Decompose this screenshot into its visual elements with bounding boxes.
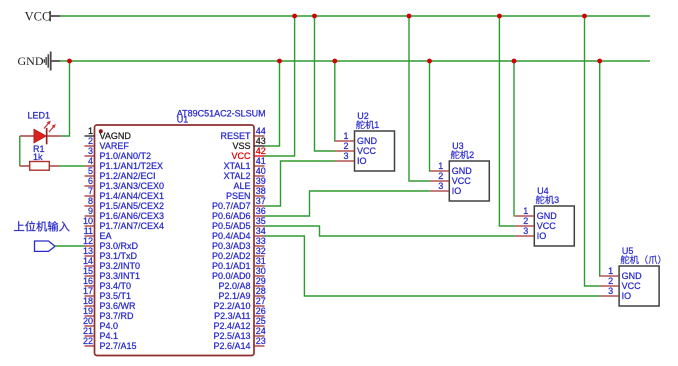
svg-text:P2.0/A8: P2.0/A8 <box>218 281 250 291</box>
svg-text:GND: GND <box>18 54 44 68</box>
U1 pin 13 P3.1/TxD <box>83 246 138 261</box>
wire VCC rail to U5 pin 2 <box>585 16 600 286</box>
U1 pin 42 VCC <box>231 146 265 161</box>
svg-text:EA: EA <box>100 231 112 241</box>
U1 pin 32 P0.2/AD2 <box>212 246 266 261</box>
wire GND rail to U2 pin 1 <box>334 61 336 141</box>
svg-text:24: 24 <box>256 326 266 336</box>
U2 pin 2 VCC <box>335 141 377 156</box>
svg-text:7: 7 <box>88 186 93 196</box>
U1 pin 6 P1.3/AN3/CEX0 <box>85 176 165 191</box>
svg-text:29: 29 <box>256 276 266 286</box>
U1 pin 31 P0.1/AD1 <box>212 256 266 271</box>
connector U2 title <box>356 120 379 130</box>
svg-text:12: 12 <box>83 236 93 246</box>
wire R1 to U1 pin 4 <box>59 165 85 167</box>
U1 pin 22 P2.7/A15 <box>83 336 137 351</box>
svg-text:P1.0/AN0/T2: P1.0/AN0/T2 <box>100 151 152 161</box>
svg-text:28: 28 <box>256 286 266 296</box>
svg-text:GND: GND <box>622 271 643 281</box>
wire LED1 anode down to R1 <box>19 136 21 166</box>
svg-text:P1.3/AN3/CEX0: P1.3/AN3/CEX0 <box>100 181 165 191</box>
U1 pin 8 P1.5/AN5/CEX2 <box>85 196 165 211</box>
U1 pin 24 P2.5/A13 <box>213 326 265 341</box>
junction on GND rail x=334.8 <box>332 59 337 64</box>
connector U3 body <box>449 161 489 201</box>
svg-text:39: 39 <box>256 176 266 186</box>
connector U4 title <box>536 195 559 205</box>
U3 pin 2 VCC <box>430 171 472 186</box>
svg-text:P1.4/AN4/CEX1: P1.4/AN4/CEX1 <box>100 191 165 201</box>
svg-text:32: 32 <box>256 246 266 256</box>
svg-text:P0.6/AD6: P0.6/AD6 <box>212 211 251 221</box>
svg-text:VCC: VCC <box>25 10 51 24</box>
svg-text:6: 6 <box>88 176 93 186</box>
U1 pin 7 P1.4/AN4/CEX1 <box>85 186 165 201</box>
svg-text:GND: GND <box>357 136 378 146</box>
svg-text:VSS: VSS <box>232 141 250 151</box>
U4 pin 2 VCC <box>515 216 557 231</box>
U1 pin 36 P0.6/AD6 <box>212 206 266 221</box>
svg-text:IO: IO <box>622 291 632 301</box>
U1 pin 9 P1.6/AN6/CEX3 <box>85 206 165 221</box>
connector U3 title <box>451 150 474 160</box>
svg-text:LED1: LED1 <box>28 111 51 121</box>
port symbol (harness entry) <box>35 241 56 251</box>
svg-text:VCC: VCC <box>452 176 472 186</box>
svg-text:26: 26 <box>256 306 266 316</box>
wire U1 pin 36 P0.6 to U3 pin 3 IO <box>265 191 430 216</box>
U2 pin 3 IO <box>335 151 367 166</box>
svg-text:U5: U5 <box>622 246 634 256</box>
U1 pin 23 P2.6/A14 <box>213 336 265 351</box>
IC U1 pin-1 origin dot <box>99 129 103 133</box>
junction on VCC rail x=294.6 <box>292 14 297 19</box>
U1 pin 10 P1.7/AN7/CEX4 <box>83 216 164 231</box>
U4 pin 1 GND <box>515 206 558 221</box>
svg-text:P0.4/AD4: P0.4/AD4 <box>212 231 251 241</box>
svg-text:P2.2/A10: P2.2/A10 <box>213 301 250 311</box>
svg-text:1: 1 <box>608 266 613 276</box>
svg-text:P0.5/AD5: P0.5/AD5 <box>212 221 251 231</box>
svg-text:35: 35 <box>256 216 266 226</box>
svg-text:2: 2 <box>343 141 348 151</box>
svg-text:P3.7/RD: P3.7/RD <box>100 311 135 321</box>
svg-text:37: 37 <box>256 196 266 206</box>
svg-text:P3.1/TxD: P3.1/TxD <box>100 251 138 261</box>
junction on GND rail x=279.5 <box>277 59 282 64</box>
U1 pin 11 EA <box>84 226 112 241</box>
U1 pin 20 P4.0 <box>83 316 118 331</box>
svg-text:P0.2/AD2: P0.2/AD2 <box>212 251 251 261</box>
svg-text:2: 2 <box>438 171 443 181</box>
wire VCC rail to U3 pin 2 <box>409 16 430 181</box>
U3 pin 3 IO <box>430 181 462 196</box>
svg-text:P1.7/AN7/CEX4: P1.7/AN7/CEX4 <box>100 221 165 231</box>
junction on VCC rail x=584.5 <box>582 14 587 19</box>
junction on GND rail x=599.7 <box>597 59 602 64</box>
svg-text:P2.1/A9: P2.1/A9 <box>218 291 250 301</box>
wire U1 pin 43 VSS to GND rail <box>265 61 280 146</box>
svg-text:XTAL2: XTAL2 <box>224 171 251 181</box>
svg-text:IO: IO <box>452 186 462 196</box>
svg-text:36: 36 <box>256 206 266 216</box>
svg-text:34: 34 <box>256 226 266 236</box>
U1 pin 5 P1.2/AN2/ECI <box>85 166 156 181</box>
svg-text:P3.4/T0: P3.4/T0 <box>100 281 132 291</box>
U1 pin 4 P1.1/AN1/T2EX <box>85 156 164 171</box>
svg-text:44: 44 <box>256 126 266 136</box>
svg-text:P0.1/AD1: P0.1/AD1 <box>212 261 251 271</box>
svg-text:10: 10 <box>83 216 93 226</box>
junction on VCC rail x=409 <box>407 14 412 19</box>
U1 pin 19 P3.7/RD <box>83 306 134 321</box>
IC U1 body <box>95 125 255 356</box>
svg-text:31: 31 <box>256 256 266 266</box>
connector U4 body <box>534 206 574 246</box>
U1 pin 1 VAGND <box>85 126 132 141</box>
wire U1 pin 37 P0.7 to U2 pin 3 IO <box>265 161 336 206</box>
svg-text:13: 13 <box>83 246 93 256</box>
svg-text:4: 4 <box>88 156 93 166</box>
power port GND <box>18 52 61 71</box>
U1 pin 34 P0.4/AD4 <box>212 226 266 241</box>
svg-text:U4: U4 <box>537 186 549 196</box>
svg-text:VCC: VCC <box>537 221 557 231</box>
junction on GND rail x=429.5 <box>427 59 432 64</box>
wire GND rail to U5 pin 1 <box>599 61 601 276</box>
wire port to U1 pin 12 <box>55 245 85 247</box>
svg-text:40: 40 <box>256 166 266 176</box>
svg-text:3: 3 <box>523 226 528 236</box>
svg-text:P3.5/T1: P3.5/T1 <box>100 291 132 301</box>
U1 pin 39 ALE <box>233 176 265 191</box>
wire GND rail to U3 pin 1 <box>429 61 431 171</box>
svg-text:2: 2 <box>608 276 613 286</box>
U1 pin 16 P3.4/T0 <box>83 276 131 291</box>
svg-text:P1.6/AN6/CEX3: P1.6/AN6/CEX3 <box>100 211 165 221</box>
resistor R1 symbol <box>20 162 59 171</box>
U1 pin 44 RESET <box>220 126 265 141</box>
svg-text:33: 33 <box>256 236 266 246</box>
svg-text:P1.1/AN1/T2EX: P1.1/AN1/T2EX <box>100 161 164 171</box>
svg-text:P0.7/AD7: P0.7/AD7 <box>212 201 251 211</box>
junction on VCC rail x=499.4 <box>497 14 502 19</box>
junction on VCC rail x=314.5 <box>312 14 317 19</box>
svg-text:P1.2/AN2/ECI: P1.2/AN2/ECI <box>100 171 156 181</box>
connector U2 body <box>355 131 395 171</box>
svg-text:VAREF: VAREF <box>100 141 130 151</box>
wire U1 pin 42 VCC to VCC rail <box>265 16 295 156</box>
svg-text:P4.1: P4.1 <box>100 331 119 341</box>
connector U5 title <box>621 255 661 264</box>
connector U5 body <box>619 266 659 306</box>
wire VCC rail to U4 pin 2 <box>499 16 514 226</box>
U1 pin 35 P0.5/AD5 <box>212 216 266 231</box>
svg-text:20: 20 <box>83 316 93 326</box>
U5 pin 2 VCC <box>600 276 642 291</box>
U1 pin 28 P2.1/A9 <box>218 286 265 301</box>
svg-text:3: 3 <box>343 151 348 161</box>
svg-text:P2.5/A13: P2.5/A13 <box>213 331 250 341</box>
svg-text:VAGND: VAGND <box>100 131 132 141</box>
svg-text:9: 9 <box>88 206 93 216</box>
svg-text:2: 2 <box>469 150 474 160</box>
svg-text:41: 41 <box>256 156 266 166</box>
svg-text:23: 23 <box>256 336 266 346</box>
U1 pin 30 P0.0/AD0 <box>212 266 266 281</box>
U1 pin 26 P2.3/A11 <box>214 306 266 321</box>
svg-text:GND: GND <box>452 166 473 176</box>
wire U1 pin 34 P0.4 to U5 pin 3 IO <box>265 236 600 296</box>
wire LED1 cathode to GND rail <box>61 61 70 136</box>
svg-text:3: 3 <box>438 181 443 191</box>
svg-text:IO: IO <box>537 231 547 241</box>
svg-text:RESET: RESET <box>220 131 251 141</box>
svg-text:27: 27 <box>256 296 266 306</box>
svg-text:VCC: VCC <box>231 151 251 161</box>
U2 pin 1 GND <box>335 131 378 146</box>
svg-text:17: 17 <box>83 286 93 296</box>
LED LED1 symbol <box>20 121 61 145</box>
svg-text:25: 25 <box>256 316 266 326</box>
port label 上位机输入 <box>14 221 70 231</box>
U3 pin 1 GND <box>430 161 473 176</box>
U1 pin 27 P2.2/A10 <box>213 296 265 311</box>
junction on GND rail x=514 <box>512 59 517 64</box>
svg-text:XTAL1: XTAL1 <box>224 161 251 171</box>
svg-text:P1.5/AN5/CEX2: P1.5/AN5/CEX2 <box>100 201 165 211</box>
U1 pin 15 P3.3/INT1 <box>83 266 140 281</box>
wire U1 pin 35 P0.5 to U4 pin 3 IO <box>265 226 515 236</box>
U4 pin 3 IO <box>515 226 547 241</box>
U1 pin 14 P3.2/INT0 <box>83 256 140 271</box>
wire GND rail to U4 pin 1 <box>513 61 515 216</box>
U1 pin 43 VSS <box>232 136 265 151</box>
wire GND rail <box>60 60 650 62</box>
U1 pin 25 P2.4/A12 <box>213 316 265 331</box>
svg-text:11: 11 <box>84 226 93 236</box>
svg-text:3: 3 <box>554 195 559 205</box>
svg-text:42: 42 <box>256 146 266 156</box>
U1 pin 21 P4.1 <box>83 326 118 341</box>
svg-text:22: 22 <box>83 336 93 346</box>
svg-text:VCC: VCC <box>357 146 377 156</box>
svg-text:43: 43 <box>256 136 266 146</box>
svg-text:P2.6/A14: P2.6/A14 <box>213 341 250 351</box>
wire VCC rail to U2 pin 2 <box>315 16 336 151</box>
svg-text:P0.0/AD0: P0.0/AD0 <box>212 271 251 281</box>
svg-text:GND: GND <box>537 211 558 221</box>
U1 pin 3 P1.0/AN0/T2 <box>85 146 152 161</box>
svg-text:ALE: ALE <box>233 181 250 191</box>
svg-text:VCC: VCC <box>622 281 642 291</box>
svg-text:38: 38 <box>256 186 266 196</box>
svg-text:P4.0: P4.0 <box>100 321 119 331</box>
svg-text:P0.3/AD3: P0.3/AD3 <box>212 241 251 251</box>
U1 pin 2 VAREF <box>85 136 130 151</box>
svg-text:1: 1 <box>374 120 379 130</box>
svg-text:PSEN: PSEN <box>226 191 251 201</box>
power port VCC <box>25 10 60 24</box>
svg-text:30: 30 <box>256 266 266 276</box>
svg-text:AT89C51AC2-SLSUM: AT89C51AC2-SLSUM <box>177 109 266 119</box>
svg-text:21: 21 <box>83 326 93 336</box>
svg-text:8: 8 <box>88 196 93 206</box>
U1 pin 41 XTAL1 <box>224 156 266 171</box>
U1 pin 29 P2.0/A8 <box>218 276 265 291</box>
svg-text:P3.3/INT1: P3.3/INT1 <box>100 271 141 281</box>
svg-text:1: 1 <box>523 206 528 216</box>
svg-text:U2: U2 <box>357 111 369 121</box>
svg-text:19: 19 <box>83 306 93 316</box>
U1 pin 12 P3.0/RxD <box>83 236 139 251</box>
svg-text:P3.6/WR: P3.6/WR <box>100 301 137 311</box>
U5 pin 1 GND <box>600 266 643 281</box>
svg-text:P3.0/RxD: P3.0/RxD <box>100 241 139 251</box>
svg-text:P2.3/A11: P2.3/A11 <box>214 311 250 321</box>
svg-text:1: 1 <box>88 126 93 136</box>
svg-text:2: 2 <box>523 216 528 226</box>
svg-text:14: 14 <box>83 256 93 266</box>
svg-text:16: 16 <box>83 276 93 286</box>
svg-text:3: 3 <box>88 146 93 156</box>
svg-text:1: 1 <box>343 131 348 141</box>
svg-text:18: 18 <box>83 296 93 306</box>
svg-text:3: 3 <box>608 286 613 296</box>
svg-text:2: 2 <box>88 136 93 146</box>
U1 pin 17 P3.5/T1 <box>83 286 131 301</box>
wire VCC rail <box>60 15 650 17</box>
svg-text:1: 1 <box>438 161 443 171</box>
U1 pin 38 PSEN <box>226 186 266 201</box>
U1 pin 18 P3.6/WR <box>83 296 136 311</box>
svg-text:P2.7/A15: P2.7/A15 <box>100 341 137 351</box>
svg-text:P2.4/A12: P2.4/A12 <box>213 321 250 331</box>
U1 pin 37 P0.7/AD7 <box>212 196 266 211</box>
junction on GND rail x=69.5 <box>67 59 72 64</box>
svg-text:U3: U3 <box>452 141 464 151</box>
svg-text:1k: 1k <box>33 152 43 162</box>
U1 pin 33 P0.3/AD3 <box>212 236 266 251</box>
U5 pin 3 IO <box>600 286 632 301</box>
svg-text:15: 15 <box>83 266 93 276</box>
U1 pin 40 XTAL2 <box>224 166 266 181</box>
svg-text:P3.2/INT0: P3.2/INT0 <box>100 261 141 271</box>
svg-text:U1: U1 <box>177 114 189 124</box>
svg-text:IO: IO <box>357 156 367 166</box>
svg-text:5: 5 <box>88 166 93 176</box>
